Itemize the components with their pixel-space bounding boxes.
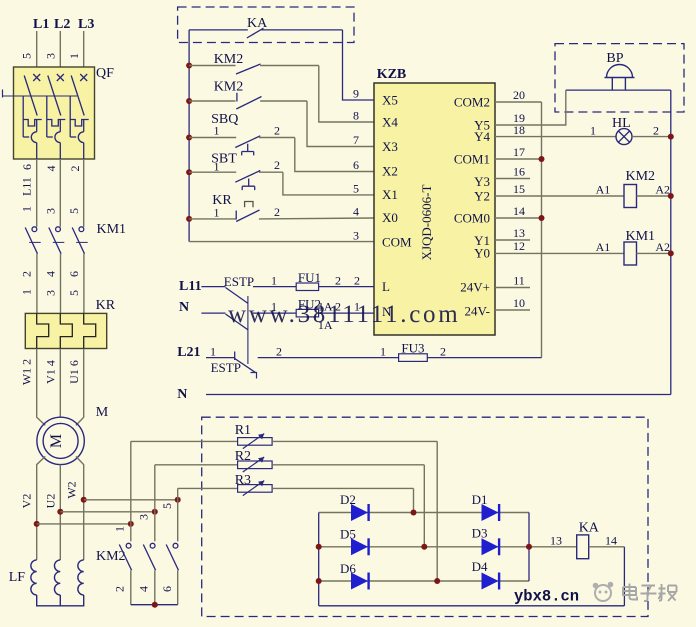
wire phase L2 into QF <box>59 31 61 78</box>
svg-text:COM2: COM2 <box>454 95 490 110</box>
pin number 6 (QF bottom pole 1) <box>20 164 34 170</box>
pin number 18 <box>513 123 525 137</box>
pin number 15 <box>513 182 525 196</box>
junction COM1 / rail <box>539 156 545 162</box>
svg-text:Y4: Y4 <box>474 129 490 144</box>
svg-text:6: 6 <box>67 271 81 277</box>
svg-text:L11: L11 <box>20 177 34 196</box>
svg-text:10: 10 <box>513 296 525 310</box>
junction bus / SBQ <box>186 135 192 141</box>
svg-text:16: 16 <box>513 165 525 179</box>
pin number 12 <box>513 239 525 253</box>
svg-text:3: 3 <box>353 229 359 243</box>
dashed enclosure around brake rectifier unit <box>202 417 648 616</box>
svg-text:X1: X1 <box>382 187 398 202</box>
reactor LF <box>9 560 84 606</box>
net label L11 (phase wire) <box>20 177 34 196</box>
dashed enclosure around KA contact <box>178 7 354 43</box>
wire KM2 pole2 lower <box>154 570 156 604</box>
junction KM2 pole2 / R2 / U2 <box>152 509 158 515</box>
pushbutton SBQ <box>189 112 295 155</box>
svg-text:14: 14 <box>605 534 617 548</box>
wire V2 riser to R1 <box>130 441 132 524</box>
wire BP base bar <box>566 89 671 91</box>
svg-text:KM1: KM1 <box>97 222 127 237</box>
svg-text:1: 1 <box>590 123 596 137</box>
node L1 <box>33 17 49 32</box>
pin number 4 (QF bottom pole 2) <box>44 166 58 172</box>
wire KA coil return <box>623 547 625 606</box>
svg-text:KM2: KM2 <box>214 80 244 95</box>
contactor KM1 main contacts <box>25 222 126 254</box>
pin number 1 (KR top) <box>20 289 34 295</box>
motor M <box>37 405 109 465</box>
net label L11 <box>179 279 202 294</box>
ESTP mechanical linkage <box>247 296 249 364</box>
svg-text:L3: L3 <box>78 17 94 32</box>
svg-text:X5: X5 <box>382 93 398 108</box>
svg-text:Y0: Y0 <box>474 246 490 261</box>
wire N return to right rail <box>206 394 671 396</box>
svg-text:15: 15 <box>513 182 525 196</box>
wire COM2 (pin 20) to common rail <box>495 101 542 103</box>
svg-text:8: 8 <box>353 109 359 123</box>
svg-text:L1: L1 <box>33 17 49 32</box>
svg-text:2: 2 <box>276 345 282 359</box>
svg-text:L11: L11 <box>179 279 202 294</box>
svg-text:1: 1 <box>214 160 220 174</box>
junction KM2 coil / right rail <box>668 193 674 199</box>
pin number 5 (QF top pole 1) <box>20 53 34 59</box>
resistor R1 (variable) <box>131 423 437 449</box>
pin number 13 <box>513 226 525 240</box>
wire R2 drop to bridge row 2 <box>423 465 425 547</box>
svg-text:3: 3 <box>44 290 58 296</box>
junction COM0 / rail <box>539 215 545 221</box>
diode D3 <box>472 526 500 556</box>
QF pole 2 <box>47 74 66 159</box>
svg-text:24V+: 24V+ <box>460 280 490 295</box>
wire bus to COM (pin 3) <box>189 241 374 243</box>
svg-text:2: 2 <box>274 124 280 138</box>
pin number 2 (QF bottom pole 3) <box>68 166 82 172</box>
svg-text:12: 12 <box>513 239 525 253</box>
diode D6 <box>340 561 369 590</box>
svg-text:13: 13 <box>550 534 562 548</box>
coil KM2 <box>495 169 671 208</box>
wire COM0 (pin 14) <box>495 217 542 219</box>
svg-text:ESTP: ESTP <box>224 274 254 289</box>
pin number 3 (KR top) <box>44 290 58 296</box>
svg-text:V1 4: V1 4 <box>44 360 58 384</box>
junction W2 at motor lead <box>81 497 87 503</box>
diode D2 <box>340 492 369 521</box>
wire LF star bar <box>37 595 84 606</box>
junction R3 / row 1 <box>411 510 417 516</box>
pin number 1 (at N input) <box>354 300 360 314</box>
svg-text:A1: A1 <box>596 183 611 197</box>
pin number 5 (KR top) <box>67 290 81 296</box>
svg-text:5: 5 <box>160 503 174 509</box>
junction HL / right rail <box>668 134 674 140</box>
SECTION: marks <box>228 301 677 606</box>
svg-text:Y2: Y2 <box>474 189 490 204</box>
svg-text:V2: V2 <box>20 494 34 509</box>
pin number 17 <box>513 145 525 159</box>
wire KM2 NO to X4 (pin 8) <box>319 66 374 123</box>
wire W2 riser to R3 <box>177 488 179 499</box>
wire KR to motor phase 2 <box>59 349 61 418</box>
svg-text:W2: W2 <box>64 481 78 498</box>
svg-text:QF: QF <box>96 66 114 81</box>
pin number 9 <box>353 87 359 101</box>
wire KM2 NC to X3 (pin 7) <box>307 101 374 147</box>
svg-text:D4: D4 <box>472 559 488 574</box>
wire phase L1 into QF <box>36 31 38 78</box>
lamp HL <box>495 116 671 145</box>
pin number 2 (FU1 right) <box>335 274 341 288</box>
net label L21 <box>177 345 200 360</box>
wire KR to motor phase 3 <box>76 349 84 426</box>
svg-text:U2: U2 <box>44 494 58 509</box>
wire KM2 pole1 stub <box>130 524 132 541</box>
svg-text:D3: D3 <box>472 526 488 541</box>
svg-text:D2: D2 <box>340 492 356 507</box>
wire KM2 pole3 lower <box>177 570 179 604</box>
svg-text:14: 14 <box>513 204 525 218</box>
wire Y1 stub (pin 13) <box>495 239 530 241</box>
pin number 19 <box>513 111 525 125</box>
svg-text:A1: A1 <box>596 240 611 254</box>
svg-text:KR: KR <box>96 298 116 313</box>
junction bus / KR <box>186 216 192 222</box>
controller module KZB (XJQD-0606-T) <box>374 67 495 335</box>
svg-text:W1 2: W1 2 <box>20 359 34 385</box>
emergency stop ESTP pole 3 (L21) <box>206 352 399 379</box>
SECTION: outputs right <box>495 44 684 395</box>
svg-text:1: 1 <box>20 289 34 295</box>
svg-text:1: 1 <box>67 53 81 59</box>
svg-text:6: 6 <box>20 164 34 170</box>
svg-text:3: 3 <box>137 514 151 520</box>
auxiliary contact KM2 NO <box>189 52 319 74</box>
pin number 1 (ESTP L21 left) <box>210 345 216 359</box>
junction KM1 coil / right rail <box>668 250 674 256</box>
wire R3 drop to bridge row 1 <box>413 488 415 512</box>
pin number 2 (FU3 right) <box>440 345 446 359</box>
pin number 1 (FU1 left) <box>271 274 277 288</box>
svg-text:5: 5 <box>67 290 81 296</box>
svg-text:2: 2 <box>354 274 360 288</box>
pin number 7 <box>353 133 359 147</box>
junction left rail / row 3 <box>316 578 322 584</box>
wire motor to W2 <box>76 456 84 560</box>
wire right return rail <box>670 90 672 394</box>
svg-text:1: 1 <box>20 206 34 212</box>
svg-text:13: 13 <box>513 226 525 240</box>
QF mechanical linkage <box>2 90 4 98</box>
SECTION: left power circuit <box>3 17 181 608</box>
junction left rail / row 2 <box>316 544 322 550</box>
net label V1 / pin 4 <box>44 360 58 384</box>
svg-text:D1: D1 <box>472 492 488 507</box>
svg-text:M: M <box>48 434 65 448</box>
pin number 2 (ESTP L21 right) <box>276 345 282 359</box>
net label W2 <box>64 481 78 498</box>
svg-text:A2: A2 <box>655 183 670 197</box>
svg-text:KM2: KM2 <box>214 52 244 67</box>
node L3 <box>78 17 94 32</box>
wire U2 riser to R2 <box>154 465 156 512</box>
svg-text:A2: A2 <box>655 240 670 254</box>
pin number 3 <box>353 229 359 243</box>
svg-text:R1: R1 <box>235 423 251 438</box>
wire control bus (left) <box>188 30 190 242</box>
svg-text:N: N <box>177 387 187 402</box>
relay contact KA <box>189 16 342 38</box>
svg-text:X2: X2 <box>382 164 398 179</box>
pin number 4 <box>353 205 359 219</box>
QF pole 1 <box>23 74 42 159</box>
wire bridge left rail <box>318 513 320 606</box>
resistor R2 (variable) <box>155 449 425 472</box>
pin number 5 <box>353 182 359 196</box>
svg-text:4: 4 <box>137 586 151 592</box>
fuse FU1 <box>296 270 374 291</box>
svg-text:5: 5 <box>20 53 34 59</box>
svg-text:4: 4 <box>44 166 58 172</box>
pushbutton SBT <box>189 152 283 191</box>
svg-text:4: 4 <box>44 271 58 277</box>
junction KM2 bar <box>152 602 158 608</box>
thermal relay KR <box>25 298 115 349</box>
svg-text:D6: D6 <box>340 561 356 576</box>
svg-text:1: 1 <box>380 345 386 359</box>
svg-text:KA: KA <box>579 521 600 536</box>
svg-text:1: 1 <box>210 345 216 359</box>
wire W2 row <box>84 499 178 501</box>
pin number 5 (KM1 top) <box>67 208 81 214</box>
svg-text:X4: X4 <box>382 115 398 130</box>
wire Y5 (pin 19) to BP <box>495 90 566 125</box>
wire QF to KM1 phase 1 <box>36 159 38 227</box>
svg-text:2: 2 <box>274 205 280 219</box>
svg-text:COM1: COM1 <box>454 152 490 167</box>
svg-text:3: 3 <box>44 208 58 214</box>
svg-text:7: 7 <box>353 133 359 147</box>
node L2 <box>54 17 70 32</box>
net label V2 <box>20 494 34 509</box>
junction R2 / row 2 <box>421 544 427 550</box>
SECTION: KZB controller <box>374 67 495 335</box>
dashed enclosure around BP <box>555 44 684 112</box>
coil KM1 <box>495 229 671 265</box>
resistor R3 (variable) <box>178 473 414 496</box>
wire motor to U2 <box>59 465 61 560</box>
pin number 6 <box>353 158 359 172</box>
wire KM2 pole2 stub <box>154 512 156 542</box>
net label N <box>179 300 189 315</box>
svg-text:L21: L21 <box>177 345 200 360</box>
wire KM2 pole3 stub <box>177 500 179 542</box>
pin number 2 (KM1 bottom) <box>20 271 34 277</box>
svg-text:KA: KA <box>247 16 268 31</box>
svg-text:2: 2 <box>653 123 659 137</box>
circuit breaker QF <box>3 66 115 159</box>
auxiliary contact KM2 NC <box>189 80 307 110</box>
svg-text:L2: L2 <box>54 17 70 32</box>
pin number 2 (at L input) <box>354 274 360 288</box>
emergency stop ESTP pole 2 (N) <box>201 313 296 330</box>
svg-text:1: 1 <box>214 206 220 220</box>
junction KM2 pole1 / R1 / V2 <box>128 521 134 527</box>
relay coil KA <box>550 521 624 559</box>
svg-text:2: 2 <box>68 166 82 172</box>
pin number 1 (QF top pole 3) <box>67 53 81 59</box>
wire KM1 to KR phase 1 <box>36 254 38 314</box>
svg-text:BP: BP <box>606 51 623 66</box>
wire 24V+ stub (pin 11) <box>495 287 530 289</box>
svg-text:1: 1 <box>113 526 127 532</box>
net label W1 / pin 2 <box>20 359 34 385</box>
wire SBT to X1 (pin 5) <box>283 172 374 195</box>
diode D1 <box>472 492 500 521</box>
net label U2 <box>44 494 58 509</box>
pin number 3 (QF top pole 2) <box>44 53 58 59</box>
junction right rail / row 2 <box>526 544 532 550</box>
wire bridge row 2 <box>319 546 577 548</box>
pin number 16 <box>513 165 525 179</box>
svg-text:1: 1 <box>214 123 220 137</box>
pin number 2 (FU2 right) <box>335 300 341 314</box>
wire KA to X5 (pin 9) <box>343 30 375 100</box>
junction bus / KM2 NO <box>186 63 192 69</box>
junction bus / KM2 NC <box>186 98 192 104</box>
svg-text:2: 2 <box>113 586 127 592</box>
svg-text:U1 6: U1 6 <box>67 360 81 384</box>
svg-text:6: 6 <box>353 158 359 172</box>
svg-text:2: 2 <box>20 271 34 277</box>
svg-text:4: 4 <box>353 205 359 219</box>
svg-text:2: 2 <box>440 345 446 359</box>
net label U1 / pin 6 <box>67 360 81 384</box>
svg-text:Y3: Y3 <box>474 174 490 189</box>
pin number 1 (KM1 top) <box>20 206 34 212</box>
newspaper logo (panda) <box>593 582 614 601</box>
wire Y3 stub (pin 16) <box>495 178 530 180</box>
SECTION: control inputs <box>178 7 374 243</box>
svg-text:M: M <box>96 405 109 420</box>
siren BP <box>605 51 635 90</box>
wire KM1 to KR phase 3 <box>83 254 85 314</box>
pin number 1 (FU3 left) <box>380 345 386 359</box>
junction U2 at motor lead <box>57 509 63 515</box>
pin number 8 <box>353 109 359 123</box>
pin number 1 (FU2 left) <box>271 300 277 314</box>
wire KM2 pole1 lower <box>130 570 132 604</box>
wire KM2 shorting bar <box>131 604 178 606</box>
junction KM2 pole3 / R3 / W2 <box>175 497 181 503</box>
wire motor to V2 <box>37 456 46 560</box>
svg-text:2: 2 <box>274 158 280 172</box>
SECTION: bottom bridge <box>131 417 648 616</box>
wire bridge row 3 <box>319 580 529 582</box>
fuse FU3 <box>399 341 542 362</box>
wire bridge right rail <box>528 513 530 582</box>
junction bus / SBT <box>186 169 192 175</box>
wire KM1 to KR phase 2 <box>60 254 62 314</box>
svg-text:L: L <box>382 279 390 294</box>
thermal relay contact KR <box>189 193 374 222</box>
wire QF to KM1 phase 3 <box>83 159 85 227</box>
net label N (lower) <box>177 387 187 402</box>
fuse FU2 <box>296 297 374 333</box>
pin number 20 <box>513 88 525 102</box>
svg-text:6: 6 <box>160 586 174 592</box>
QF pole 3 <box>70 74 89 159</box>
pin number 14 <box>513 204 525 218</box>
svg-text:17: 17 <box>513 145 525 159</box>
svg-text:D5: D5 <box>340 527 356 542</box>
wire bridge row 1 <box>319 512 529 514</box>
pin number 6 (KM1 bottom) <box>67 271 81 277</box>
wire DC return bottom <box>319 605 625 607</box>
svg-text:ybx8.cn: ybx8.cn <box>514 588 579 606</box>
wire QF to KM1 phase 2 <box>59 159 61 227</box>
svg-text:COM: COM <box>382 235 412 250</box>
newspaper name 电子报 (drawn strokes) <box>623 584 677 602</box>
svg-text:KZB: KZB <box>377 67 407 82</box>
pin number 3 (KM1 top) <box>44 208 58 214</box>
wire COM1 (pin 17) <box>495 158 542 160</box>
svg-text:ESTP: ESTP <box>211 360 241 375</box>
svg-text:9: 9 <box>353 87 359 101</box>
diode D5 <box>340 527 369 556</box>
svg-text:X3: X3 <box>382 139 398 154</box>
svg-text:N: N <box>179 300 189 315</box>
svg-text:COM0: COM0 <box>454 211 490 226</box>
junction V2 at motor lead <box>34 521 40 527</box>
pin number 4 (KM1 bottom) <box>44 271 58 277</box>
svg-text:X0: X0 <box>382 210 398 225</box>
svg-text:11: 11 <box>513 274 525 288</box>
wire common rail (COM2/COM1/COM0 to FU3) <box>541 102 543 358</box>
diode D4 <box>472 559 500 590</box>
junction R1 / row 3 <box>434 578 440 584</box>
svg-text:KM2: KM2 <box>626 169 656 184</box>
wire U2 row <box>60 511 155 513</box>
svg-text:5: 5 <box>67 208 81 214</box>
wire R1 drop to bridge row 3 <box>436 441 438 581</box>
wire V2 row <box>37 523 131 525</box>
SECTION: supply rows <box>177 270 671 402</box>
wire phase L3 into QF <box>83 31 85 78</box>
pin number 10 <box>513 296 525 310</box>
svg-text:www.3811111.com: www.3811111.com <box>228 301 460 328</box>
svg-text:5: 5 <box>353 182 359 196</box>
svg-text:24V-: 24V- <box>464 304 490 319</box>
wire 24V- stub (pin 10) <box>495 309 530 311</box>
svg-text:1: 1 <box>271 274 277 288</box>
svg-text:2: 2 <box>335 274 341 288</box>
contactor KM2 main (star short) contacts <box>96 497 181 608</box>
svg-text:3: 3 <box>44 53 58 59</box>
wire KR to motor phase 1 <box>37 349 46 426</box>
svg-text:KM2: KM2 <box>96 549 126 564</box>
svg-text:20: 20 <box>513 88 525 102</box>
label ESTP (upper) <box>224 274 254 289</box>
pin number 11 <box>513 274 525 288</box>
